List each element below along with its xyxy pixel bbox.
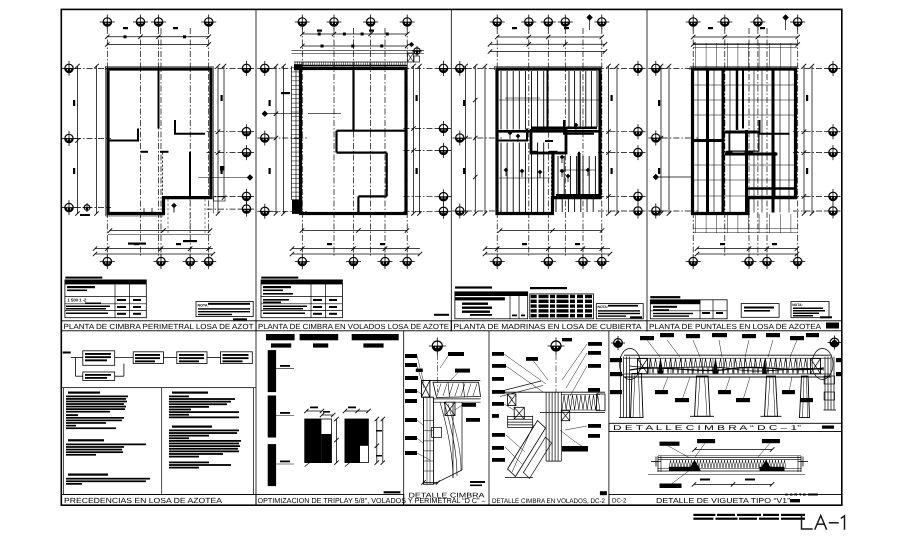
dc1 xbox left — [638, 359, 648, 374]
plan 2 interior step walls — [335, 131, 337, 153]
exterior wall outline — [693, 69, 796, 214]
plan 2 leader into plan — [308, 113, 341, 115]
interior wall stub — [174, 120, 176, 134]
triplay sheet diagram A — [305, 419, 322, 463]
grid lines horizontal dash-dot — [662, 67, 698, 69]
title bar plan 1 — [61, 321, 256, 331]
table 2 row lines — [261, 296, 342, 298]
plan 2 dimension left chain — [275, 66, 277, 214]
title bar plan 4 — [647, 321, 842, 331]
interior dashed partition — [746, 153, 748, 197]
table 3 nota box — [596, 304, 643, 319]
plan 2 edge formwork top band — [294, 61, 407, 63]
table 3a bold rows — [462, 303, 488, 305]
grid bubbles right column — [826, 61, 841, 76]
left column paragraph 3 — [66, 478, 150, 480]
table 3a header fill — [455, 292, 528, 296]
interior wall vertical lower — [774, 152, 776, 198]
exterior wall outline — [497, 69, 600, 214]
detalle C leader lines — [417, 356, 424, 383]
legend bar 2 — [300, 334, 339, 340]
plan 2 top right marker — [409, 42, 414, 47]
column divider line 2 — [450, 9, 452, 331]
plan 4 dimension lines below — [697, 248, 797, 250]
dc2 long leader to pattern label — [560, 430, 588, 448]
precedencias text column divider — [161, 388, 163, 495]
dc2 labels top mid — [526, 357, 538, 361]
plan 2 dimension lines above — [302, 33, 407, 35]
grid bubbles bottom row — [100, 254, 115, 269]
detalle C slab bottom lines — [433, 398, 481, 400]
plan 4 thick grid verticals — [706, 70, 709, 213]
detalle C cimbra label above — [455, 369, 470, 373]
plan 1 right wall small box outside — [214, 197, 226, 201]
dc1 leaders below — [662, 377, 668, 392]
table block column 1 — [65, 277, 253, 321]
table 4 caption — [650, 296, 680, 298]
dc1 right labels — [836, 358, 842, 362]
dc2 right end box — [597, 394, 606, 411]
interior wall vertical mid — [526, 129, 528, 142]
title bar plan 2 — [256, 321, 451, 331]
plan 1 right small blob — [220, 166, 225, 171]
interior dashed partition 2 — [189, 153, 191, 197]
left strip bar 3 — [268, 444, 276, 486]
detalle C corte esc — [470, 481, 485, 483]
plan 3 madrina joist lines lower-right room — [557, 156, 559, 194]
grid lines vertical dash-dot — [353, 28, 355, 256]
sheet notes small text line 2 — [693, 518, 713, 520]
table 1 cell text mush — [67, 286, 95, 288]
table block column 2 — [261, 277, 449, 318]
grid bubbles top row — [295, 15, 310, 30]
vigueta beam lines — [658, 457, 801, 459]
dc1 labels above band — [640, 336, 654, 340]
vigueta end plus marks — [651, 461, 661, 463]
vigueta dimension below — [694, 483, 772, 485]
table 4 header fill — [650, 300, 700, 304]
exterior wall outline — [108, 69, 211, 214]
dc1 right end small boxes — [824, 376, 834, 384]
detalle C top label — [448, 352, 464, 356]
table 2 outer box — [261, 280, 342, 318]
plan 4 dimension lines above — [693, 36, 798, 38]
grid lines vertical dash-dot — [160, 28, 162, 256]
svg-text:D E T A L L E C I M B R A: D E T A L L E C I M B R A “ D C – 1” — [613, 425, 802, 432]
dc1 hatch verticals — [649, 359, 651, 374]
grid bubbles top row — [686, 15, 701, 30]
plan 4 extension lines above — [695, 43, 697, 69]
sheet notes small text line 1 — [693, 514, 715, 516]
interior wall horizontal — [759, 133, 790, 135]
plan 3 dimension lines above — [497, 36, 602, 38]
wall offset thin line top — [495, 66, 603, 68]
vigueta dark bottom strips — [669, 467, 694, 471]
plan 2 top-right small bubble — [412, 46, 422, 56]
dc1 labels below band — [655, 390, 668, 394]
left strip bar 1 — [268, 350, 276, 392]
detalle C slab top line — [422, 379, 481, 381]
detalle C grid bubble — [429, 338, 446, 355]
interior wall vertical lower — [189, 152, 191, 198]
detalle C right vertical lines — [452, 402, 454, 478]
grid bubbles right column — [631, 61, 646, 76]
plan 3 central box — [531, 131, 566, 154]
dc2 band top lines — [497, 391, 605, 393]
interior wall vertical mid — [722, 129, 724, 142]
interior wall horizontal left — [108, 140, 138, 142]
plan 2 exterior wall outline — [301, 69, 407, 214]
table 2 caption — [261, 277, 298, 279]
right column heading acero — [172, 392, 208, 394]
dimension number texts plans — [73, 27, 808, 245]
plan 2 corner dark block — [294, 64, 302, 70]
table 1 nota box — [196, 302, 253, 317]
dc1 right detail ellipse — [812, 349, 833, 380]
detalle C top-left label — [416, 369, 423, 372]
dc1 right end column rails — [824, 357, 826, 410]
left column heading viguetas — [68, 392, 100, 394]
detalle C leader labels left — [405, 354, 417, 358]
plan 3 thick h lower right — [556, 194, 602, 197]
detalle dc1 group — [609, 333, 842, 432]
esc text optimizacion — [384, 491, 401, 493]
interior wall vertical — [547, 69, 549, 129]
vigueta below numbers — [700, 479, 710, 481]
plan 4 thick grid horizontals — [725, 131, 760, 134]
vigueta filled triangles — [688, 460, 701, 471]
detalle C bottom dimension — [424, 482, 439, 484]
dc1 right post trapezoid — [800, 376, 810, 418]
interior wall stub — [563, 120, 565, 134]
dc1 xbox right — [810, 359, 820, 374]
table block column 4 — [650, 296, 832, 319]
plan 1 right side marker diamond — [247, 174, 253, 180]
dc2 percent note — [600, 491, 607, 495]
interior wall vertical mid — [137, 129, 139, 142]
interior dashed partition — [162, 153, 164, 197]
grid bubbles bottom row — [686, 254, 701, 269]
dc1 left post trapezoid — [631, 374, 644, 418]
grid lines horizontal dash-dot — [271, 67, 307, 69]
plan 3 madrina joist lines step room — [555, 199, 557, 212]
dc2 central column rails — [545, 392, 547, 461]
dc1 right bubble — [828, 336, 842, 350]
right column paragraph 1 — [169, 396, 189, 398]
left column paragraph 1 — [66, 396, 128, 398]
dc2 leader lines — [504, 354, 546, 384]
plan 1 small opening ticks — [143, 208, 145, 214]
dc1 left detail ellipse — [620, 349, 641, 380]
dc2 diagonal strut 1 — [508, 421, 546, 477]
plan 4 central white box — [729, 133, 759, 152]
plan 4 top marker diamond — [782, 14, 788, 20]
dc2 xbox left — [514, 407, 524, 419]
dc1 leaders above — [647, 340, 660, 357]
optimizacion title bar — [256, 495, 404, 506]
plan 3 leader lines interior — [505, 97, 540, 99]
plan 2 slab edge projection line — [292, 53, 425, 55]
bottom section divider 2 — [403, 331, 405, 505]
plan 1 cimbra perimeter thin offset bottom — [106, 215, 164, 217]
table 2 cell text mush — [263, 286, 291, 288]
wall offset thin line top — [690, 66, 798, 68]
plan 1 dimension line above 1 — [107, 36, 208, 38]
grid bubbles left column — [648, 61, 663, 76]
right column footer note — [169, 462, 209, 464]
interior wall vertical — [158, 69, 160, 129]
grid lines vertical dash-dot — [547, 28, 549, 256]
grid lines vertical dash-dot — [748, 28, 750, 256]
dc2 zigzag hatch band — [562, 395, 600, 410]
svg-text:DC-2: DC-2 — [612, 498, 627, 505]
precedencias section group — [61, 351, 256, 505]
svg-text:1 500 1 -2: 1 500 1 -2 — [68, 298, 88, 303]
legend bar 1 — [266, 334, 295, 340]
grid bubbles bottom row — [490, 254, 505, 269]
left column notas — [66, 414, 78, 416]
plan 3 top marker diamond — [586, 14, 592, 20]
plan 2 left marker diamond — [262, 111, 268, 117]
plan 3 tree symbols puntales — [504, 168, 509, 173]
flowchart box 4 — [221, 352, 253, 364]
interior wall stubs lower — [141, 151, 148, 153]
table 3b caption — [530, 287, 567, 289]
plan 1 dimension lines right — [217, 66, 219, 214]
plan 3 madrina joist lines upper-right room — [568, 71, 570, 127]
left strip bar 2 — [268, 396, 276, 438]
plan 1 dimension line above 2 — [107, 44, 208, 46]
dc2 xbox on column — [561, 411, 569, 421]
dc2 inclined slab top-left — [497, 381, 541, 392]
plan 3 madrina joist lines upper-left room — [500, 71, 502, 130]
plan 2 right corner boxes — [408, 53, 414, 62]
detalle C vault trapezoid — [433, 382, 481, 397]
grid lines horizontal dash-dot — [466, 67, 502, 69]
plan 1 dimension lines left — [77, 66, 79, 214]
detalle C column ladder — [424, 397, 434, 484]
left column paragraph 2 — [66, 444, 146, 446]
dc1 middle post 1 — [695, 376, 711, 416]
legend bar 3 — [352, 334, 399, 340]
grid bubbles bottom row — [295, 254, 310, 269]
vigueta detail group — [609, 439, 842, 505]
grid bubbles left column — [257, 61, 272, 76]
table 1 outer box — [65, 280, 146, 318]
detalle C small box on column — [432, 427, 442, 437]
plan 2 interior wall vertical — [352, 69, 354, 131]
plan 3 dimension chains right — [608, 66, 610, 214]
table 4 nota box — [791, 302, 829, 318]
table block column 3 — [455, 286, 643, 318]
dc2 diagonal strut 2 — [524, 437, 552, 479]
plan 3 madrina joist lines lower-left room — [500, 143, 502, 213]
plan 2 left tiny note — [281, 92, 290, 94]
dc1 band top lines — [624, 354, 831, 356]
dc2 ladder block left — [508, 394, 516, 406]
plan 4 group: planta de puntales en losa de azotea — [648, 14, 840, 269]
dc1 title bar — [609, 423, 842, 431]
vigueta bottom-left label — [660, 484, 682, 489]
interior wall horizontal — [563, 133, 594, 135]
sheet number LA-1 — [802, 516, 845, 530]
table 1 row lines — [65, 296, 146, 298]
svg-text:DETALLE CIMBRA EN VOLADOS,: DETALLE CIMBRA EN VOLADOS, DC-2 — [492, 498, 605, 505]
plan 2 corner volado filled block — [292, 199, 302, 214]
wall offset thin line top — [106, 66, 214, 68]
svg-text:DETALLE DE VIGUETA TIPO “V: DETALLE DE VIGUETA TIPO “V1” — [656, 496, 791, 505]
vigueta lower thin line — [648, 474, 805, 476]
dc1 filled hatch triangles — [658, 359, 663, 374]
vigueta title bar — [609, 495, 842, 506]
plan 2 dimension right — [413, 66, 415, 214]
svg-text:PLANTA DE CIMBRA EN VOLADOS LO: PLANTA DE CIMBRA EN VOLADOS LOSA DE AZOT… — [258, 322, 449, 331]
flowchart box 5 — [83, 372, 115, 380]
detalle C bottom taper — [434, 470, 462, 484]
title bar plan 3 — [451, 321, 647, 331]
table 4 esc text — [820, 316, 832, 318]
right column heading concreto — [172, 426, 212, 428]
detalle C xbox — [445, 402, 455, 415]
dc2 labels right column — [588, 342, 602, 346]
svg-text:PLANTA DE MADRINAS EN LOSA DE: PLANTA DE MADRINAS EN LOSA DE CUBIERTA — [454, 322, 642, 331]
svg-text:PRECEDENCIAS EN LOSA DE AZOTEA: PRECEDENCIAS EN LOSA DE AZOTEA — [64, 496, 222, 505]
dc2 dashdot axis — [555, 354, 557, 392]
table 1 column dividers — [114, 280, 116, 318]
plan 3 thick vertical lower 2 — [578, 153, 581, 197]
detalle C dashdot axis — [436, 354, 438, 392]
plan 3 mid thick band upper — [531, 127, 597, 130]
svg-text:PLANTA DE PUNTALES EN LOSA DE: PLANTA DE PUNTALES EN LOSA DE AZOTEA — [649, 322, 821, 331]
plan 4 thin verticals — [697, 70, 699, 213]
left column heading cimbra para volados — [68, 439, 104, 441]
vigueta label leaders — [668, 446, 690, 458]
interior wall vertical lower — [578, 152, 580, 198]
plan 1 thin line below bottom wall — [108, 234, 211, 236]
bottom section divider 3 — [488, 331, 490, 505]
grid bubbles right column — [436, 61, 451, 76]
svg-text:PLANTA DE CIMBRA PERIMETRAL LO: PLANTA DE CIMBRA PERIMETRAL LOSA DE AZOT — [64, 322, 255, 331]
plan 4 left marker diamond — [653, 174, 659, 180]
table 1 header fill — [65, 280, 146, 285]
detalle C wood grain diagonals — [440, 402, 453, 478]
diagram A right dimension chain — [336, 419, 338, 463]
flowchart box 3 — [177, 352, 207, 364]
plan 3 group: planta de madrinas en losa de cubierta — [452, 14, 645, 269]
bottom section divider 1 — [255, 331, 257, 505]
dc1 left labels — [610, 358, 622, 362]
table 4 column dividers — [699, 300, 701, 319]
grid bubbles top row — [490, 15, 505, 30]
table 3 caption — [455, 286, 492, 288]
plan 3 dimension lines below — [500, 230, 602, 232]
precedencias separator line — [61, 387, 256, 389]
table 3a outer box — [455, 292, 528, 319]
interior wall horizontal left — [693, 140, 723, 142]
column divider line 1 — [255, 9, 257, 331]
triplay sheet diagram B dims — [345, 410, 369, 412]
table 3a right columns — [509, 292, 511, 319]
plan 1 tree symbol — [171, 203, 177, 209]
interior wall stubs lower — [726, 151, 733, 153]
plan 1 dimension text below — [128, 243, 146, 245]
table 2 column dividers — [310, 280, 312, 318]
detalle cimbra perimetral group — [405, 338, 485, 500]
table 4 rows — [653, 306, 677, 308]
table 3a header second — [455, 297, 505, 300]
dc2 grid bubble — [548, 338, 565, 355]
table 1 esc text — [233, 318, 247, 320]
vigueta labels above — [660, 442, 680, 446]
flowchart box 1 — [83, 351, 115, 366]
interior wall horizontal left — [497, 140, 527, 142]
precedencias title bar — [61, 495, 256, 506]
dc1 left bubble — [611, 336, 625, 350]
svg-text:DETALLE CIMBRA: DETALLE CIMBRA — [409, 493, 485, 500]
precedencias text area box — [64, 388, 254, 495]
triplay sheet diagram A dims — [306, 410, 322, 412]
dc2 plank stack left — [508, 416, 533, 418]
flowchart inicio label — [63, 352, 71, 354]
interior wall vertical — [742, 69, 744, 129]
svg-text:NOTA:: NOTA: — [598, 305, 608, 309]
table 3 esc text — [630, 316, 642, 318]
plan 2 group: planta de cimbra en volados — [257, 15, 451, 270]
interior wall horizontal — [174, 133, 205, 135]
table 3b dense table — [530, 294, 594, 319]
vigueta vertical zigzag hatch — [669, 460, 786, 468]
dc1 left end column rails — [620, 357, 622, 418]
plan 2 edge formwork ladder left — [291, 66, 293, 200]
grid bubbles top row — [100, 15, 115, 30]
table 4 outer box — [650, 300, 727, 319]
plan 1 dimension lines below — [110, 230, 210, 232]
plan 3 dimension chains left — [465, 66, 467, 214]
diagram B right dimension chain — [376, 419, 378, 463]
vigueta end caps — [657, 456, 659, 472]
plan 3 mid thick band — [497, 130, 602, 133]
interior wall stubs lower — [530, 151, 537, 153]
plan 1 bottom-left small bubble — [83, 203, 92, 212]
detalle volados dc2 group — [492, 338, 607, 506]
flowchart box 2 — [133, 352, 163, 364]
interior dashed partition — [551, 153, 553, 197]
bottom section divider 4 — [608, 331, 610, 505]
flowchart connectors — [71, 357, 83, 359]
table 1 caption — [65, 277, 102, 279]
plan 2 dimension lines below — [302, 230, 407, 232]
left column heading instalaciones — [68, 474, 108, 476]
plan 1 cimbra perimeter thin offset right — [213, 67, 215, 214]
optimizacion section group — [256, 334, 486, 505]
table 4 middle box — [741, 304, 779, 318]
interior wall stub — [759, 120, 761, 134]
plan 1 group: planta de cimbra perimetral — [62, 15, 255, 270]
detalle C left madrina block — [422, 380, 430, 397]
interior dashed partition 2 — [578, 153, 580, 197]
plan 3 madrina horizontal thin lines — [499, 99, 600, 101]
triplay sheet diagram B — [345, 419, 360, 463]
right column paragraph 2 — [169, 430, 239, 432]
detalle C labels right — [462, 403, 476, 407]
dc2 labels left column — [492, 352, 504, 356]
plan 4 dimension chains left — [660, 66, 662, 214]
plan 1 square tick marks — [124, 35, 127, 38]
dc1 middle post 2 — [765, 376, 778, 416]
dc2 strut base tick — [505, 477, 533, 479]
dc1 triangular hatch — [648, 359, 808, 374]
dc1 wavy madrina line — [630, 367, 824, 370]
